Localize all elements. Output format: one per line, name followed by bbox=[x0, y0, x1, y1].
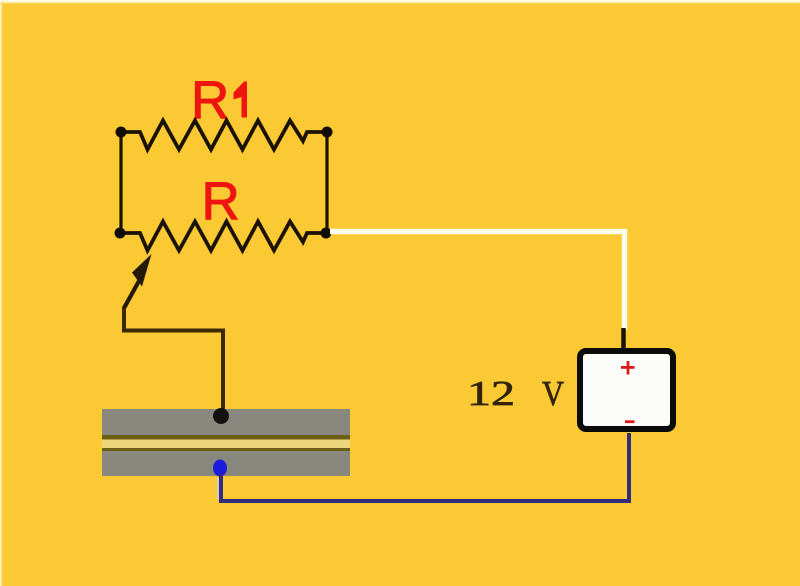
wire: blue return wire (bottom plate to battery minus) bbox=[221, 433, 629, 501]
wire: left vertical of parallel loop bbox=[119, 132, 122, 233]
junction dot on top plate bbox=[213, 408, 229, 424]
node: blue terminal dot on bottom plate bbox=[213, 460, 227, 477]
svg-text:12: 12 bbox=[467, 374, 515, 413]
node D: R right bbox=[321, 228, 332, 239]
highlight on blue wire below dot bbox=[217, 478, 220, 499]
dielectric band bbox=[102, 440, 350, 449]
battery - mark bbox=[625, 420, 635, 423]
battery + mark bbox=[621, 366, 635, 369]
node A: R1 left bbox=[116, 127, 127, 138]
wire: short black lead into battery top bbox=[621, 328, 626, 350]
svg-text:V: V bbox=[542, 374, 564, 413]
wire: right vertical of parallel loop bbox=[325, 132, 328, 233]
wire: wiper to top plate bbox=[124, 308, 223, 412]
node B: R1 right bbox=[322, 127, 333, 138]
capacitor bottom plate bbox=[102, 451, 350, 476]
capacitor top plate bbox=[102, 409, 350, 435]
battery (12 V source) box bbox=[580, 351, 673, 429]
wire: white/cream wire from R right node to battery plus bbox=[330, 232, 625, 331]
resistor R (potentiometer track) bbox=[121, 222, 326, 251]
wiper arrow of potentiometer bbox=[124, 281, 140, 309]
node C: R left bbox=[115, 228, 126, 239]
svg-text:R: R bbox=[202, 172, 240, 231]
resistor R1 bbox=[121, 121, 327, 150]
